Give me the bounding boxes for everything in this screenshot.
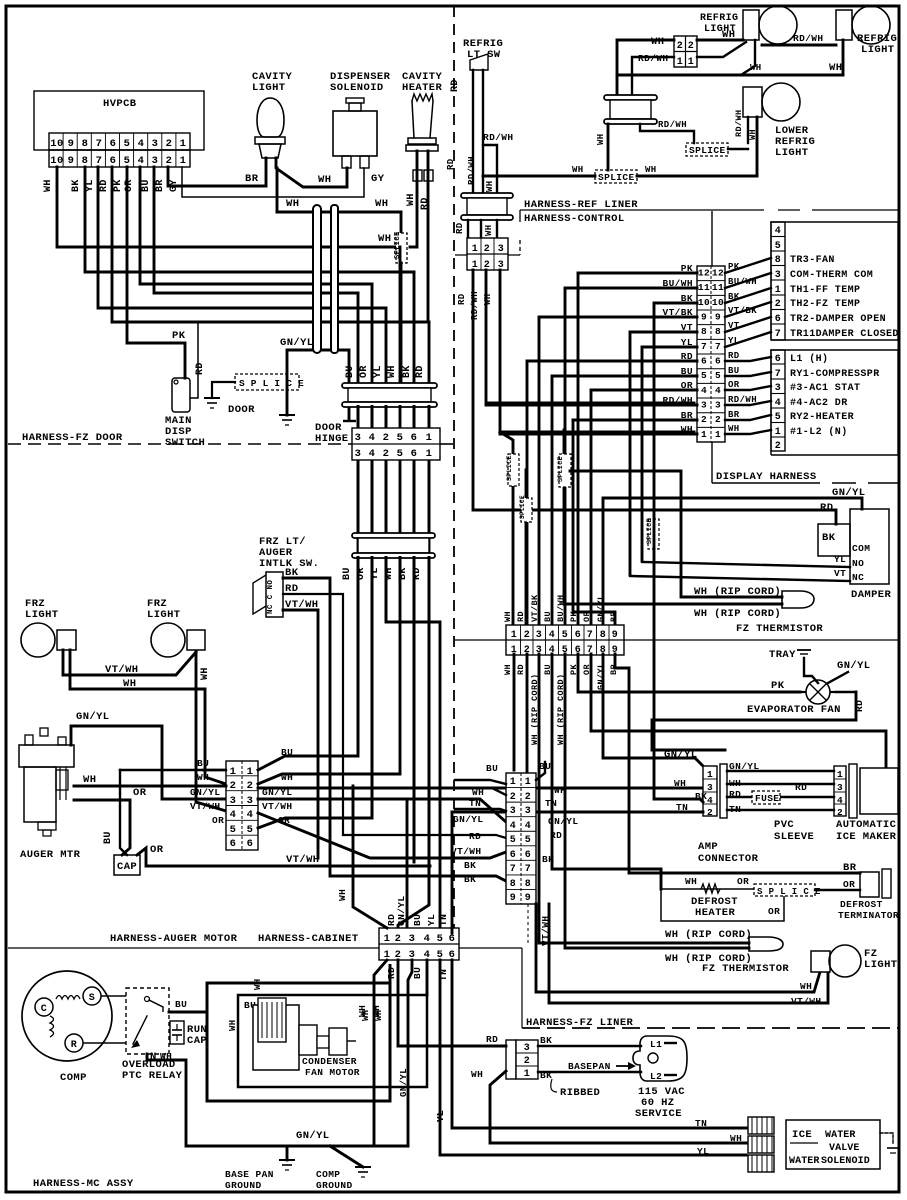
svg-text:TH2-FZ TEMP: TH2-FZ TEMP (790, 299, 860, 310)
svg-text:4: 4 (707, 795, 713, 806)
svg-text:RD: RD (854, 700, 865, 712)
svg-text:GN/YL: GN/YL (832, 487, 866, 499)
svg-text:1: 1 (510, 777, 516, 788)
svg-text:6: 6 (701, 356, 707, 367)
svg-text:9: 9 (68, 155, 75, 167)
svg-text:BR: BR (155, 179, 166, 192)
svg-text:YL: YL (834, 554, 846, 565)
svg-text:RD: RD (99, 179, 110, 192)
svg-text:2: 2 (247, 780, 254, 792)
svg-text:5: 5 (437, 933, 444, 945)
svg-text:3: 3 (775, 383, 781, 394)
svg-text:7: 7 (775, 369, 781, 380)
svg-text:WH: WH (387, 365, 398, 378)
svg-text:8: 8 (775, 255, 781, 266)
svg-text:WH: WH (375, 198, 388, 210)
svg-text:WH: WH (503, 664, 513, 675)
svg-text:RD: RD (516, 664, 526, 675)
svg-text:BU: BU (728, 366, 740, 376)
svg-text:BASEPAN: BASEPAN (568, 1061, 611, 1072)
svg-text:GN/YL: GN/YL (190, 787, 221, 798)
svg-text:RD: RD (729, 789, 741, 800)
svg-text:SPLICE: SPLICE (519, 495, 526, 519)
svg-text:1: 1 (701, 429, 707, 440)
svg-text:7: 7 (587, 630, 593, 641)
svg-text:5: 5 (397, 448, 404, 460)
svg-text:DEFROST: DEFROST (840, 899, 883, 910)
svg-text:COM: COM (852, 543, 870, 554)
svg-text:8: 8 (82, 155, 89, 167)
svg-text:TH1-FF TEMP: TH1-FF TEMP (790, 285, 860, 296)
svg-text:1: 1 (837, 769, 843, 780)
svg-text:BU: BU (486, 763, 498, 774)
svg-text:4: 4 (775, 226, 781, 237)
svg-text:WH: WH (596, 133, 606, 145)
svg-text:6: 6 (247, 838, 254, 850)
svg-text:OR: OR (843, 879, 855, 890)
svg-text:6: 6 (775, 314, 781, 325)
svg-text:7: 7 (96, 155, 103, 167)
svg-text:AUTOMATIC: AUTOMATIC (836, 819, 897, 831)
svg-text:LIGHT: LIGHT (775, 147, 809, 159)
svg-text:1: 1 (525, 777, 531, 788)
svg-text:6: 6 (411, 432, 418, 444)
svg-text:GN/YL: GN/YL (296, 1130, 330, 1142)
svg-text:6: 6 (510, 850, 516, 861)
svg-text:TRAY: TRAY (769, 649, 796, 661)
svg-text:3: 3 (355, 432, 362, 444)
svg-text:7: 7 (96, 138, 103, 150)
svg-text:2: 2 (524, 630, 530, 641)
svg-text:TR11DAMPER CLOSED: TR11DAMPER CLOSED (790, 329, 899, 340)
svg-text:LIGHT: LIGHT (864, 959, 898, 971)
svg-text:HINGE: HINGE (315, 433, 349, 445)
svg-text:1: 1 (230, 766, 237, 778)
svg-text:2: 2 (688, 41, 694, 52)
svg-text:L1 (H): L1 (H) (790, 353, 828, 365)
svg-text:VT: VT (834, 568, 846, 579)
svg-text:#4-AC2 DR: #4-AC2 DR (790, 398, 848, 409)
svg-text:WH: WH (485, 180, 495, 192)
svg-text:GN/YL: GN/YL (664, 749, 698, 761)
svg-text:WH: WH (197, 772, 209, 783)
svg-text:NO: NO (852, 558, 864, 569)
svg-text:4: 4 (549, 630, 555, 641)
svg-text:REFRIG: REFRIG (700, 13, 738, 24)
svg-text:WH: WH (722, 29, 735, 41)
svg-text:7: 7 (775, 329, 781, 340)
svg-text:WH (RIP CORD): WH (RIP CORD) (694, 586, 781, 598)
svg-text:LIGHT: LIGHT (252, 82, 286, 94)
svg-text:BU: BU (141, 179, 152, 192)
svg-text:LIGHT: LIGHT (861, 44, 895, 56)
svg-text:RD: RD (795, 782, 807, 793)
svg-text:BK: BK (822, 532, 836, 544)
svg-text:1: 1 (715, 429, 721, 440)
svg-text:2: 2 (510, 792, 516, 803)
svg-text:SPLICE: SPLICE (557, 456, 564, 482)
svg-text:1: 1 (688, 57, 694, 68)
svg-text:ICE: ICE (792, 1129, 812, 1141)
svg-text:N: N (150, 1051, 157, 1063)
svg-text:HARNESS-FZ DOOR: HARNESS-FZ DOOR (22, 432, 123, 444)
svg-text:2: 2 (166, 155, 173, 167)
svg-text:VALVE: VALVE (829, 1143, 860, 1154)
svg-text:1: 1 (180, 138, 187, 150)
svg-text:VT/WH: VT/WH (791, 996, 822, 1007)
svg-text:WH: WH (554, 785, 566, 796)
svg-text:OR: OR (150, 844, 164, 856)
svg-text:VT/BK: VT/BK (728, 306, 757, 316)
svg-text:HEATER: HEATER (402, 82, 443, 94)
svg-text:WH: WH (651, 36, 664, 48)
svg-text:RD: RD (486, 1034, 498, 1045)
svg-text:SLEEVE: SLEEVE (774, 831, 814, 843)
svg-text:4: 4 (525, 821, 531, 832)
svg-text:6: 6 (411, 448, 418, 460)
svg-text:2: 2 (677, 41, 683, 52)
svg-text:2: 2 (707, 807, 713, 818)
svg-text:WH: WH (374, 1009, 384, 1021)
svg-text:R: R (71, 1040, 77, 1051)
svg-text:YL: YL (728, 336, 740, 346)
svg-text:GN/YL: GN/YL (399, 1068, 409, 1097)
svg-text:4: 4 (138, 155, 145, 167)
svg-text:3: 3 (715, 400, 721, 411)
svg-text:L1: L1 (650, 1039, 662, 1050)
svg-text:RD: RD (285, 583, 298, 595)
svg-text:HARNESS-MC ASSY: HARNESS-MC ASSY (33, 1178, 134, 1190)
svg-text:12: 12 (698, 268, 710, 279)
svg-text:2: 2 (715, 414, 721, 425)
svg-text:WH: WH (483, 293, 493, 305)
svg-text:SWITCH: SWITCH (165, 437, 205, 449)
svg-text:PK: PK (172, 330, 186, 342)
svg-text:RD: RD (820, 502, 833, 514)
svg-text:4: 4 (775, 398, 781, 409)
svg-text:RD: RD (195, 362, 206, 375)
svg-text:GN/YL: GN/YL (596, 662, 606, 690)
svg-text:GN/YL: GN/YL (76, 711, 110, 723)
svg-text:7: 7 (701, 341, 707, 352)
svg-text:RD: RD (469, 831, 481, 842)
svg-text:OR: OR (737, 876, 749, 887)
svg-text:9: 9 (525, 893, 531, 904)
svg-text:5: 5 (124, 155, 131, 167)
svg-text:VT: VT (728, 321, 740, 331)
svg-text:BU/WH: BU/WH (728, 277, 757, 287)
svg-text:WH: WH (484, 224, 494, 236)
svg-text:WH: WH (728, 424, 740, 434)
svg-text:PVC: PVC (774, 819, 794, 831)
svg-text:HARNESS-FZ LINER: HARNESS-FZ LINER (526, 1017, 634, 1029)
svg-text:5: 5 (397, 432, 404, 444)
svg-text:WH: WH (43, 179, 54, 192)
svg-text:1: 1 (707, 769, 713, 780)
svg-text:S: S (89, 993, 95, 1004)
svg-text:FZ THERMISTOR: FZ THERMISTOR (702, 963, 789, 975)
svg-text:2: 2 (383, 432, 390, 444)
svg-text:12: 12 (712, 268, 724, 279)
svg-text:9: 9 (510, 893, 516, 904)
svg-text:3: 3 (707, 782, 713, 793)
svg-text:OR: OR (768, 906, 780, 917)
svg-text:5: 5 (775, 412, 781, 423)
svg-text:4: 4 (701, 385, 707, 396)
svg-text:5: 5 (510, 835, 516, 846)
svg-text:3: 3 (152, 138, 159, 150)
svg-text:NC C NO: NC C NO (267, 580, 275, 614)
svg-text:4: 4 (369, 432, 376, 444)
svg-text:RY2-HEATER: RY2-HEATER (790, 412, 854, 423)
svg-text:GN/YL: GN/YL (453, 814, 484, 825)
svg-text:WH: WH (378, 233, 391, 245)
svg-text:4: 4 (424, 933, 431, 945)
svg-text:C: C (41, 1004, 47, 1015)
svg-text:1: 1 (511, 630, 517, 641)
svg-text:OR: OR (359, 365, 370, 378)
svg-text:5: 5 (562, 630, 568, 641)
svg-text:1: 1 (247, 766, 254, 778)
svg-text:BASE PAN: BASE PAN (225, 1169, 274, 1180)
svg-text:2: 2 (395, 933, 402, 945)
svg-text:WH: WH (471, 1069, 483, 1080)
svg-text:3: 3 (230, 795, 237, 807)
svg-text:WH: WH (748, 129, 758, 140)
svg-text:6: 6 (575, 630, 581, 641)
svg-text:5: 5 (775, 241, 781, 252)
svg-text:RD: RD (420, 197, 431, 210)
svg-text:SPLICE: SPLICE (506, 455, 513, 481)
svg-text:1: 1 (775, 427, 781, 438)
svg-text:BU: BU (342, 567, 353, 580)
svg-text:10: 10 (698, 297, 710, 308)
svg-text:1: 1 (472, 244, 478, 255)
svg-text:BK: BK (542, 854, 554, 865)
svg-text:4: 4 (138, 138, 145, 150)
svg-text:WH: WH (730, 1133, 742, 1144)
svg-text:9: 9 (715, 312, 721, 323)
svg-text:WH: WH (829, 62, 842, 74)
svg-text:TN: TN (438, 914, 449, 926)
svg-text:RD/WH: RD/WH (734, 109, 744, 137)
svg-text:TN: TN (469, 798, 481, 809)
svg-text:BR: BR (843, 862, 857, 874)
svg-text:RD/WH: RD/WH (483, 132, 514, 143)
svg-text:8: 8 (701, 326, 707, 337)
svg-text:RD: RD (455, 222, 465, 234)
svg-text:8: 8 (510, 879, 516, 890)
svg-text:HEATER: HEATER (695, 907, 736, 919)
svg-text:COM-THERM COM: COM-THERM COM (790, 270, 873, 281)
svg-text:2: 2 (484, 244, 490, 255)
svg-text:VT/WH: VT/WH (262, 801, 293, 812)
svg-text:WH: WH (645, 165, 657, 175)
svg-text:3: 3 (510, 806, 516, 817)
svg-text:GY: GY (371, 173, 385, 185)
svg-text:YL: YL (85, 179, 96, 192)
svg-text:WH: WH (253, 978, 263, 990)
svg-text:WH: WH (503, 611, 513, 622)
svg-text:WH: WH (361, 1009, 371, 1021)
svg-text:5: 5 (124, 138, 131, 150)
svg-text:TN: TN (695, 1118, 707, 1129)
svg-text:10: 10 (50, 138, 63, 150)
svg-text:WH: WH (200, 667, 211, 680)
svg-text:HARNESS-AUGER MOTOR: HARNESS-AUGER MOTOR (110, 933, 238, 945)
svg-text:2: 2 (383, 448, 390, 460)
svg-text:8: 8 (715, 326, 721, 337)
svg-text:9: 9 (701, 312, 707, 323)
svg-text:OR: OR (728, 380, 740, 390)
svg-text:BK: BK (728, 292, 740, 302)
svg-text:2: 2 (525, 792, 531, 803)
svg-text:1: 1 (384, 933, 391, 945)
svg-text:RY1-COMPRESSPR: RY1-COMPRESSPR (790, 369, 880, 380)
svg-text:RIBBED: RIBBED (560, 1087, 600, 1099)
svg-text:4: 4 (510, 821, 516, 832)
svg-text:1: 1 (180, 155, 187, 167)
svg-text:RD: RD (446, 158, 456, 170)
svg-text:BU: BU (345, 365, 356, 378)
svg-text:LIGHT: LIGHT (25, 609, 59, 621)
svg-text:WH: WH (337, 889, 348, 901)
svg-text:YL: YL (697, 1146, 709, 1157)
svg-text:3: 3 (152, 155, 159, 167)
svg-text:RD: RD (550, 830, 562, 841)
svg-text:TR2-DAMPER OPEN: TR2-DAMPER OPEN (790, 314, 886, 325)
svg-text:SOLENOID: SOLENOID (330, 82, 384, 94)
svg-text:3: 3 (247, 795, 254, 807)
svg-text:LIGHT: LIGHT (147, 609, 181, 621)
svg-text:VT/WH: VT/WH (540, 915, 551, 946)
svg-text:1: 1 (426, 432, 433, 444)
svg-text:WH: WH (750, 63, 762, 73)
svg-text:4: 4 (230, 809, 237, 821)
svg-text:3: 3 (536, 630, 542, 641)
svg-text:2: 2 (775, 441, 781, 452)
svg-text:HVPCB: HVPCB (103, 98, 137, 110)
svg-text:WH: WH (572, 165, 584, 175)
svg-text:CAP: CAP (187, 1035, 207, 1047)
svg-text:HARNESS-CONTROL: HARNESS-CONTROL (524, 213, 625, 225)
svg-text:WATER: WATER (825, 1130, 856, 1141)
svg-text:4: 4 (837, 795, 843, 806)
svg-text:COMP: COMP (60, 1072, 87, 1084)
svg-text:2: 2 (166, 138, 173, 150)
svg-text:BU/WH: BU/WH (556, 594, 566, 622)
svg-text:6: 6 (715, 356, 721, 367)
svg-text:9: 9 (612, 630, 618, 641)
svg-text:BK: BK (402, 365, 413, 378)
svg-text:1: 1 (524, 1069, 530, 1080)
svg-text:WH (RIP CORD): WH (RIP CORD) (694, 608, 781, 620)
svg-text:5: 5 (701, 370, 707, 381)
svg-text:OR: OR (133, 787, 147, 799)
svg-text:6: 6 (449, 933, 456, 945)
svg-text:RD: RD (415, 365, 426, 378)
svg-text:5: 5 (715, 370, 721, 381)
svg-text:BK: BK (285, 567, 299, 579)
svg-text:VT/BK: VT/BK (530, 594, 540, 622)
svg-text:4: 4 (715, 385, 721, 396)
svg-text:GN/YL: GN/YL (837, 660, 871, 672)
svg-text:FAN MOTOR: FAN MOTOR (305, 1067, 360, 1078)
svg-text:FZ THERMISTOR: FZ THERMISTOR (736, 623, 823, 635)
svg-text:S P L I C E: S P L I C E (239, 378, 304, 389)
svg-text:FUSE: FUSE (755, 793, 779, 804)
svg-text:BU: BU (103, 831, 114, 844)
svg-text:6: 6 (775, 354, 781, 365)
svg-text:CAP: CAP (117, 861, 137, 873)
svg-text:DISPLAY HARNESS: DISPLAY HARNESS (716, 471, 817, 483)
svg-text:GN/YL: GN/YL (280, 337, 314, 349)
svg-text:L2: L2 (650, 1071, 662, 1082)
svg-text:VT/WH: VT/WH (285, 599, 319, 611)
svg-text:ICE MAKER: ICE MAKER (836, 831, 897, 843)
svg-text:PK: PK (728, 262, 740, 272)
svg-text:4: 4 (247, 809, 254, 821)
svg-text:RD: RD (386, 967, 397, 979)
svg-text:RD: RD (457, 293, 467, 305)
svg-text:BK: BK (464, 874, 476, 885)
svg-text:WH: WH (406, 193, 417, 206)
svg-text:TN: TN (545, 798, 557, 809)
svg-text:1: 1 (677, 57, 683, 68)
svg-text:8: 8 (525, 879, 531, 890)
svg-text:10: 10 (50, 155, 63, 167)
svg-text:6: 6 (525, 850, 531, 861)
svg-text:TERMINATOR: TERMINATOR (838, 910, 899, 921)
svg-text:11: 11 (712, 282, 724, 293)
svg-text:DAMPER: DAMPER (851, 589, 892, 601)
svg-text:7: 7 (525, 864, 531, 875)
svg-text:VT/WH: VT/WH (451, 846, 482, 857)
svg-text:PTC RELAY: PTC RELAY (122, 1070, 183, 1082)
svg-text:WH: WH (685, 876, 697, 887)
svg-text:2: 2 (230, 780, 237, 792)
svg-text:BU: BU (197, 758, 209, 769)
svg-text:RD/WH: RD/WH (467, 156, 477, 185)
svg-text:PK: PK (113, 179, 124, 192)
svg-text:AUGER MTR: AUGER MTR (20, 849, 81, 861)
svg-text:3: 3 (524, 1043, 530, 1054)
svg-text:BK: BK (464, 860, 476, 871)
svg-text:COMP: COMP (316, 1169, 340, 1180)
svg-text:5: 5 (525, 835, 531, 846)
svg-text:RD/WH: RD/WH (728, 395, 757, 405)
svg-text:VT/WH: VT/WH (190, 801, 221, 812)
svg-text:WH: WH (674, 778, 686, 789)
svg-text:EVAPORATOR FAN: EVAPORATOR FAN (747, 704, 841, 716)
svg-text:#1-L2 (N): #1-L2 (N) (790, 426, 848, 438)
svg-text:1: 1 (426, 448, 433, 460)
svg-text:WH: WH (160, 1051, 172, 1062)
svg-text:BU: BU (412, 914, 423, 926)
svg-text:1: 1 (775, 285, 781, 296)
svg-text:RD: RD (450, 79, 461, 92)
svg-text:GN/YL: GN/YL (596, 594, 606, 622)
svg-text:S P L I C E: S P L I C E (757, 887, 821, 897)
svg-text:3: 3 (355, 448, 362, 460)
svg-text:4: 4 (369, 448, 376, 460)
svg-text:WH: WH (318, 174, 331, 186)
svg-text:2: 2 (701, 414, 707, 425)
svg-text:WATER: WATER (789, 1156, 820, 1167)
svg-text:OR: OR (212, 815, 224, 826)
svg-text:YL: YL (373, 365, 384, 378)
svg-text:BK: BK (540, 1035, 552, 1046)
